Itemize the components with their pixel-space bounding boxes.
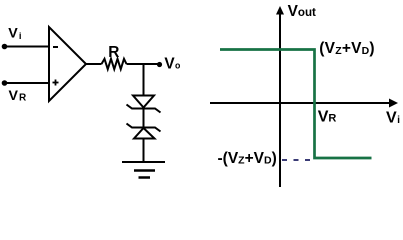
svg-text:R: R (108, 44, 119, 61)
svg-text:Vi: Vi (8, 26, 21, 42)
zener diode D1 (cathode down) (127, 96, 161, 113)
svg-text:Vo: Vo (164, 56, 181, 73)
op-amp U1 (49, 27, 86, 101)
wire junction down to zener D1 (143, 64, 145, 97)
ground (122, 162, 165, 178)
zener diode D2 (cathode up) (127, 124, 161, 139)
resistor R (102, 59, 127, 69)
svg-text:-(VZ+VD): -(VZ+VD) (218, 150, 277, 167)
graph horizontal axis Vi (210, 99, 398, 108)
svg-text:Vi: Vi (386, 109, 400, 126)
wire between zeners (143, 109, 145, 128)
node Vi terminal dot (2, 44, 8, 50)
transfer curve (220, 50, 372, 159)
wire Vi to op-amp inverting input (5, 46, 50, 48)
svg-text:(VZ+VD): (VZ+VD) (319, 40, 375, 57)
wire resistor to Vo node (127, 63, 158, 65)
svg-text:VR: VR (318, 109, 337, 126)
op-amp U1 minus sign (53, 46, 58, 48)
op-amp U1 plus sign (53, 80, 59, 86)
wire op-amp output to resistor (86, 63, 102, 65)
wire zener D2 to ground (143, 139, 145, 163)
graph vertical axis Vout (276, 6, 284, 187)
svg-text:Vout: Vout (288, 3, 316, 20)
node VR terminal dot (2, 80, 8, 86)
node Vo terminal dot (157, 62, 162, 67)
svg-text:VR: VR (9, 88, 27, 104)
wire VR to op-amp non-inverting input (5, 82, 50, 84)
dashed level line to -(Vz+VD) (282, 159, 313, 161)
